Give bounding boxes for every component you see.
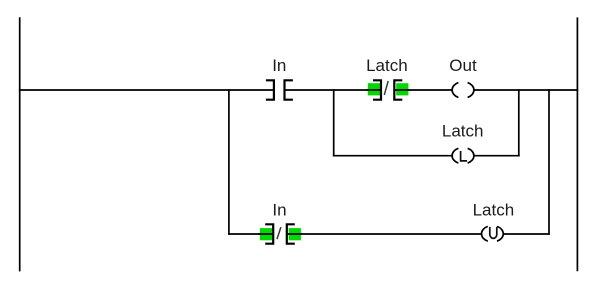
svg-text:Latch: Latch (366, 56, 408, 75)
svg-text:Latch: Latch (473, 201, 515, 220)
svg-text:In: In (272, 56, 286, 75)
svg-text:Latch: Latch (442, 121, 484, 140)
svg-text:In: In (272, 201, 286, 220)
svg-text:Out: Out (449, 56, 477, 75)
